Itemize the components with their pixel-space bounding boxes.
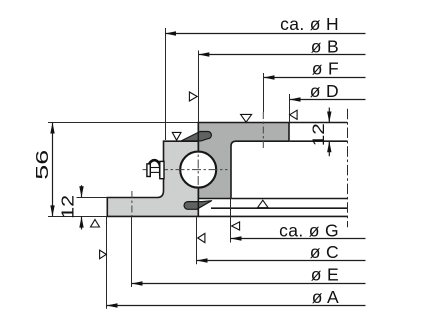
svg-text:12: 12 — [310, 123, 328, 146]
svg-text:ø A: ø A — [312, 287, 339, 307]
dim 12 left vertical — [58, 185, 84, 229]
ext line oB (x=198.3) — [198, 51, 200, 123]
outline middle line seal groove — [211, 207, 347, 209]
dim line oA — [107, 287, 366, 308]
outline continuation bottom surface — [198, 215, 347, 217]
svg-text:ø D: ø D — [310, 81, 339, 101]
dim line oD — [290, 81, 366, 102]
rotation axis centerline — [347, 109, 349, 228]
extension line left 12 (y=197.5) — [77, 197, 108, 199]
ball — [180, 152, 216, 188]
grease nipple dome — [148, 160, 160, 176]
ext line oA (x=106.9) — [106, 216, 108, 308]
dim line oF — [264, 59, 366, 80]
inner ring section — [107, 141, 198, 216]
grease nipple neck lines — [150, 167, 160, 169]
svg-text:ø C: ø C — [310, 242, 339, 262]
surface mark triangle T5 (right, at oB ext) — [189, 92, 197, 101]
outline continuation flange bottom — [290, 140, 348, 142]
seal top — [181, 132, 211, 141]
raceway boundary line over top seal — [197, 126, 199, 152]
ext line oD (x=289) — [289, 94, 291, 122]
seal bottom — [184, 201, 212, 210]
ball vertical centerline — [197, 143, 199, 196]
surface mark triangle T7 (left, at oG ext) — [232, 222, 240, 230]
surface mark triangle T9 (right, at oA ext) — [100, 250, 107, 259]
surface mark triangle T1 (inner top) — [172, 132, 181, 140]
outline continuation top flange — [289, 122, 347, 124]
grease nipple hex nut — [160, 161, 164, 178]
surface mark triangle T4 (outer bottom) — [258, 200, 269, 208]
ext line oF solid (x=263.3) — [263, 73, 265, 112]
ext line oG (x=230.9) — [230, 199, 232, 243]
dim line oB — [198, 36, 365, 56]
ext line oC (x=196.3) — [196, 217, 198, 264]
ball horizontal centerline — [143, 169, 228, 171]
dim line ca. oH — [165, 14, 366, 36]
svg-text:12: 12 — [58, 195, 78, 219]
svg-text:ø B: ø B — [311, 36, 339, 56]
ext line oH (x=165) — [165, 28, 167, 140]
svg-text:56: 56 — [32, 150, 52, 180]
bolt centerline inner flange — [131, 191, 133, 216]
svg-text:ca. ø H: ca. ø H — [280, 14, 339, 34]
dim line oE — [132, 264, 366, 285]
dim 56 vertical — [32, 123, 55, 217]
extension line top (56 dim, y=122.5) — [48, 122, 198, 124]
outline continuation outer ring bottom — [232, 198, 348, 200]
raceway boundary line over bottom seal — [197, 188, 199, 217]
surface mark triangle T3 (flange bottom) — [91, 220, 100, 228]
svg-text:ø E: ø E — [311, 264, 339, 284]
surface mark triangle T2 (outer top) — [241, 114, 252, 122]
ext line oE (x=131.9) — [131, 216, 133, 287]
svg-text:ca. ø G: ca. ø G — [279, 220, 339, 240]
svg-text:ø F: ø F — [312, 59, 339, 79]
extension line bottom left (y=216.4) — [48, 216, 107, 218]
dim line ca. oG — [231, 220, 366, 240]
grease nipple washer — [147, 164, 150, 177]
surface mark triangle T8 (left, at oC ext) — [198, 233, 205, 242]
dim line oC — [197, 242, 366, 263]
surface mark triangle T6 (left, at oD ext) — [290, 110, 298, 119]
dim 12 right vertical — [310, 108, 332, 157]
bolt centerline outer flange — [262, 112, 264, 148]
outer ring section — [198, 123, 289, 199]
